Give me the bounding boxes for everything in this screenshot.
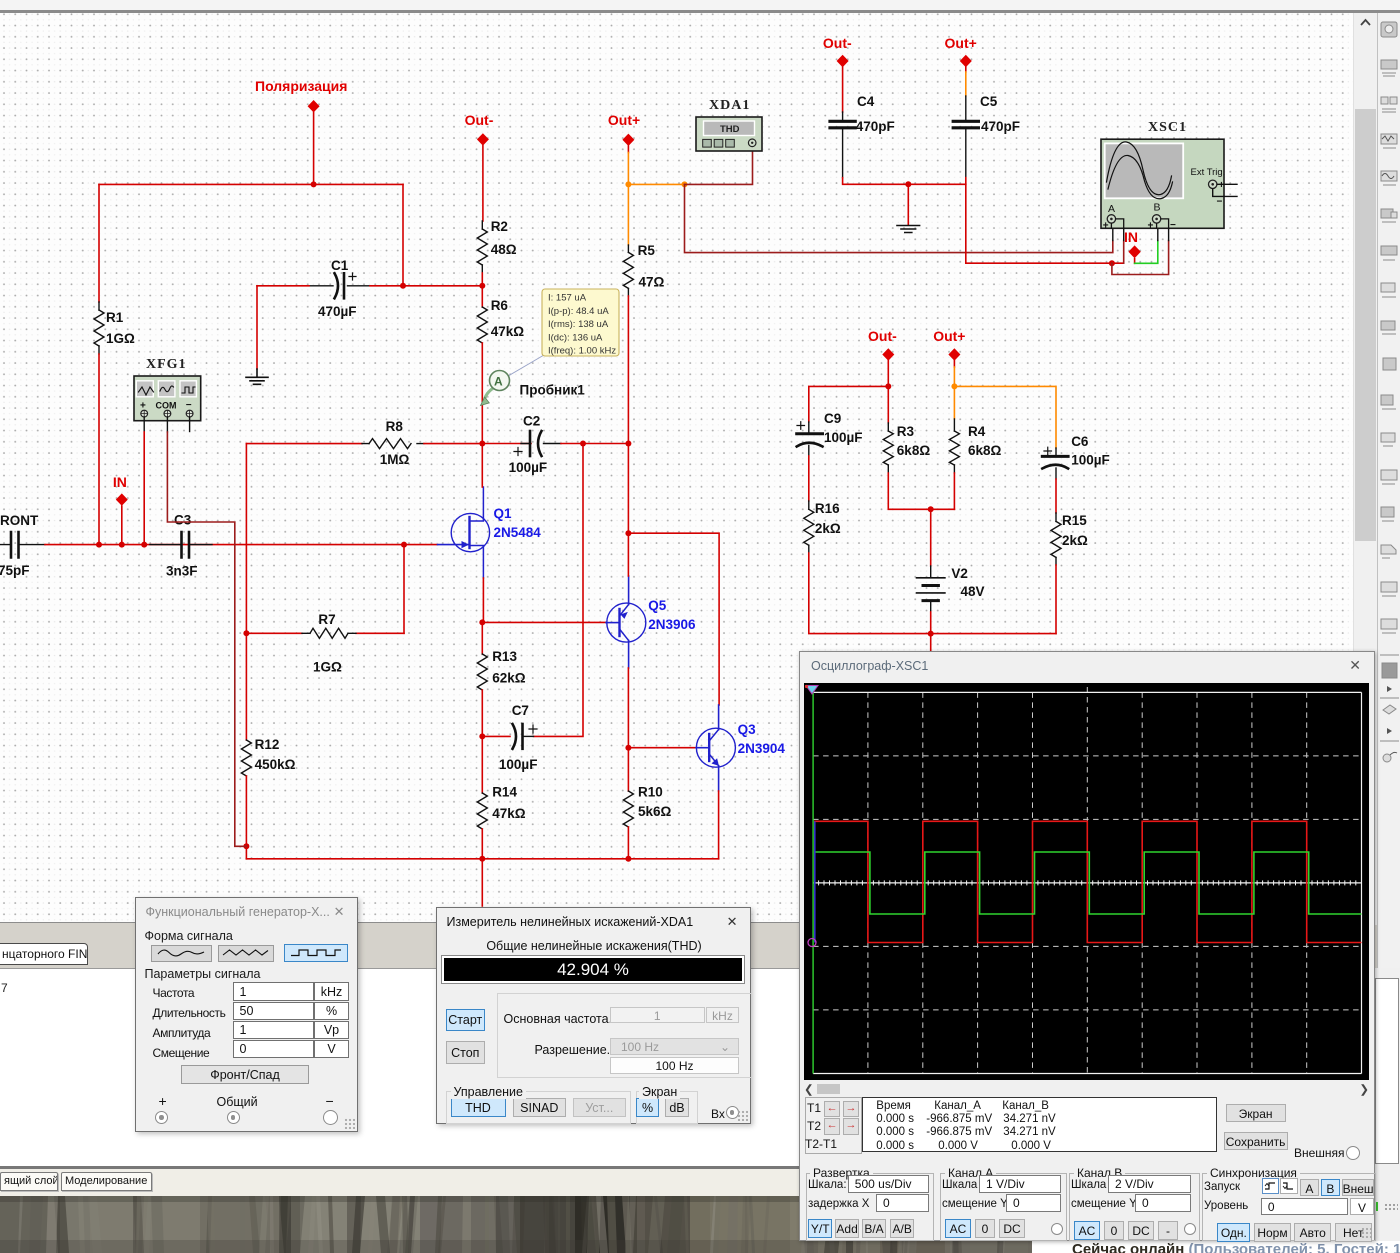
junction C7 node — [479, 733, 485, 739]
capacitor C6 — [1055, 448, 1057, 455]
wire C1 vertical from top rail — [402, 184, 404, 285]
svg-text:100µF: 100µF — [824, 430, 863, 445]
junction source node — [479, 619, 485, 625]
resistor R8 — [246, 443, 362, 445]
wire maroon to XDA1 — [685, 147, 753, 184]
wire XFG plus pin — [143, 417, 145, 432]
wire IN stub — [121, 506, 123, 545]
wire Q3 emitter down — [718, 766, 720, 791]
групп Синхронизация — [1202, 1173, 1376, 1241]
wire ground rail — [246, 858, 718, 860]
resistor R4 — [953, 386, 955, 419]
transistor Q3 2N3904 — [696, 728, 735, 767]
групп Развертка — [806, 1173, 934, 1241]
wire node to Q3 base — [628, 747, 696, 749]
junction Out- node — [885, 383, 891, 389]
junction XFG plus — [141, 542, 147, 548]
svg-text:R4: R4 — [968, 424, 986, 439]
ground C1 — [246, 369, 268, 384]
node Поляризация diamond — [308, 100, 320, 112]
wire XFG COM pin — [166, 417, 168, 432]
svg-text:C6: C6 — [1071, 434, 1089, 449]
wire R15 bottom — [1055, 565, 1057, 634]
resistor R14 — [481, 736, 483, 793]
wire Out- to R2 — [482, 146, 484, 221]
transistor Q1 2N5484 — [438, 544, 470, 546]
wire R3 bottom — [888, 473, 954, 509]
node Out+ right diamond — [948, 348, 960, 360]
resistor R6 — [481, 286, 483, 307]
wire orange down to R5 — [627, 184, 629, 245]
capacitor C75pF edge — [0, 544, 45, 546]
junction Out+ node — [951, 383, 957, 389]
svg-text:R16: R16 — [815, 501, 840, 516]
wire node to C9 — [809, 386, 889, 422]
wire Out+ stub — [953, 361, 955, 367]
wire C2 right to Q3 collector column — [583, 443, 628, 445]
junction C1 right — [400, 283, 406, 289]
wire stub under scope — [930, 634, 932, 651]
svg-text:Out+: Out+ — [933, 328, 965, 344]
групп Канал A — [940, 1173, 1067, 1241]
junction R1 bottom — [96, 542, 102, 548]
capacitor C7 — [482, 735, 510, 737]
node Out- C4 diamond — [837, 55, 849, 67]
svg-text:C9: C9 — [824, 411, 841, 426]
svg-text:100µF: 100µF — [1071, 453, 1110, 468]
probe Пробник1 tooltip — [503, 355, 544, 379]
node Out+ top diamond — [622, 134, 634, 146]
junction rail R10 — [625, 856, 631, 862]
cursor readout — [805, 1097, 862, 1155]
junction R2 R6 — [479, 283, 485, 289]
capacitor C3 — [150, 544, 212, 546]
resistor R15 — [1051, 521, 1061, 557]
channel B trace green — [814, 852, 1362, 914]
resistor R2 — [481, 221, 483, 273]
capacitor C2 — [482, 443, 531, 445]
purple marker circle — [808, 939, 816, 947]
junction R7 left — [243, 630, 249, 636]
junction instrument node — [682, 181, 688, 187]
wire C1 left down — [256, 286, 258, 369]
capacitor C5 — [965, 67, 967, 72]
junction gate node — [401, 542, 407, 548]
resistor R16 — [804, 509, 814, 545]
capacitor C4 — [842, 67, 844, 112]
wire XFG minus pin stub — [189, 417, 191, 432]
wire R12 bottom — [245, 776, 247, 859]
wire riser C2 to C7 line — [534, 444, 584, 737]
junction C2 left node — [479, 441, 485, 447]
wire R4 bottom — [953, 473, 955, 509]
wire R14 bottom — [481, 829, 483, 859]
junction rail R14 — [479, 856, 485, 862]
wire R13 bottom — [481, 690, 483, 736]
node Out- top diamond — [477, 133, 489, 145]
svg-text:2kΩ: 2kΩ — [1062, 533, 1088, 548]
junction V2 top — [928, 506, 934, 512]
node Поляризация stub — [313, 108, 315, 184]
node Out- right diamond — [882, 348, 894, 360]
resistor R3 — [887, 386, 889, 423]
wire R2 bottom — [481, 273, 483, 286]
wire source node to Q5 base — [482, 621, 606, 623]
resistor R13 — [481, 622, 483, 654]
wire Out+ stub — [627, 146, 629, 153]
resistor R12 — [245, 633, 247, 740]
ground C4C5 — [897, 226, 920, 233]
wire orange to C6 — [954, 386, 1056, 448]
wire B minus route — [1112, 241, 1169, 275]
channel A trace red — [814, 821, 1362, 942]
wire R6 bottom to C2 node — [481, 343, 483, 444]
junction Out+ node — [625, 181, 631, 187]
node IN diamond left — [116, 493, 128, 505]
wire C1 right to R2R6 node — [403, 285, 482, 287]
wire ground stub — [907, 184, 909, 225]
wire top rail Поляризация net — [99, 183, 403, 185]
wire C5 bottom to scope — [966, 178, 1124, 264]
resistor R10 — [627, 748, 629, 791]
wire Q1 drain up — [481, 444, 483, 488]
wire Q3 collector route — [628, 533, 719, 705]
wire R5 bottom — [627, 296, 629, 444]
svg-text:6k8Ω: 6k8Ω — [968, 443, 1002, 458]
svg-text:V2: V2 — [951, 566, 968, 581]
battery V2 — [930, 509, 932, 566]
green left graticule edge — [812, 692, 814, 1073]
junction top rail — [311, 181, 317, 187]
node Out+ C5 diamond — [960, 55, 972, 67]
junction Q5 collector node — [625, 745, 631, 751]
resistor R7 — [246, 632, 404, 634]
wire maroon down to scope A — [685, 184, 1113, 252]
wire orange to instrument node — [628, 183, 684, 185]
capacitor C1 — [309, 285, 370, 287]
svg-text:Out-: Out- — [868, 328, 897, 344]
Function generator dialog XFG1 — [135, 897, 358, 1132]
svg-text:6k8Ω: 6k8Ω — [897, 443, 931, 458]
svg-text:48V: 48V — [961, 584, 985, 599]
wire R1 top — [98, 184, 100, 302]
wire C4 bottom — [843, 178, 966, 185]
resistor R5 — [627, 245, 629, 252]
wire R8 left riser down — [245, 444, 247, 634]
hscroll — [804, 1082, 814, 1096]
wire R1 bottom — [98, 354, 100, 545]
wire A minus riser — [1123, 241, 1125, 264]
node IN diamond right — [1128, 245, 1140, 258]
junction V2 bottom — [928, 631, 934, 637]
top-left marker — [806, 686, 818, 695]
wire Q5 collector down — [628, 641, 630, 669]
transistor Q5 2N3906 — [607, 603, 646, 642]
junction R12 bottom corner — [243, 843, 249, 849]
junction C2-C7 riser — [580, 441, 586, 447]
junction ground tap — [905, 181, 911, 187]
svg-text:2kΩ: 2kΩ — [815, 521, 841, 536]
wire Q1 source down — [482, 578, 484, 622]
THD meter dialog XDA1 — [436, 907, 751, 1125]
wire rail stub down to dialog — [481, 859, 483, 906]
junction scope B minus node — [1109, 260, 1115, 266]
wire main input line — [45, 544, 438, 546]
svg-text:R15: R15 — [1062, 513, 1087, 528]
групп Канал B — [1069, 1173, 1200, 1241]
capacitor C9 — [808, 422, 810, 432]
wire IN to scope B plus green — [1134, 259, 1136, 264]
resistor R1 — [98, 302, 100, 354]
Oscilloscope window XSC1 — [799, 651, 1375, 1241]
blue trigger edge — [813, 821, 815, 942]
junction IN stub — [119, 542, 125, 548]
wire R7 right riser to gate node — [403, 545, 405, 634]
wire Q5 emitter up — [628, 576, 630, 605]
junction Q5 emitter node — [625, 530, 631, 536]
wire Out- to node — [887, 361, 889, 387]
wire R16 bottom rail — [809, 553, 1056, 634]
junction R5 bottom node — [625, 441, 631, 447]
wire Q3 collector up — [718, 705, 720, 730]
probe arrow — [485, 389, 493, 399]
svg-text:R3: R3 — [897, 424, 915, 439]
